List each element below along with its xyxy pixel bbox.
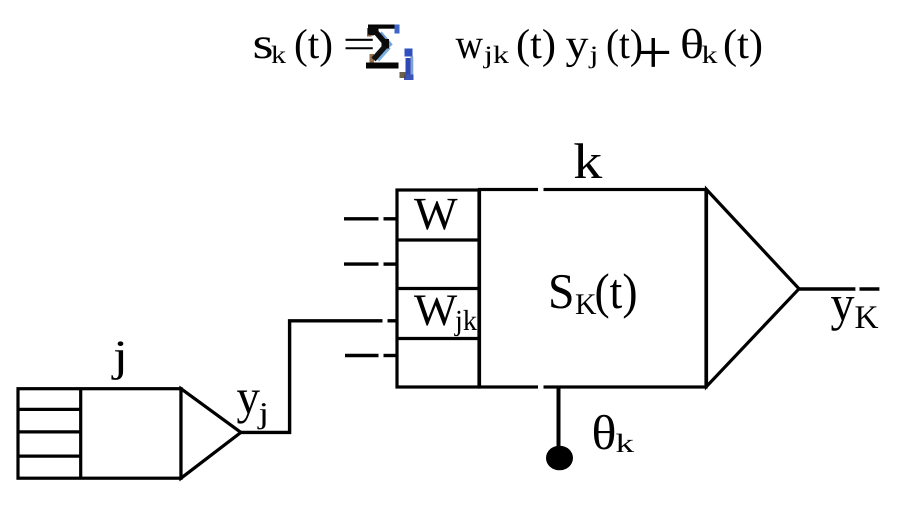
svg-text:(t): (t): [516, 22, 556, 68]
svg-text:W: W: [414, 188, 458, 239]
svg-text:θ: θ: [592, 405, 617, 460]
svg-text:w: w: [456, 22, 484, 68]
svg-text:k: k: [616, 428, 636, 458]
svg-text:j: j: [588, 42, 598, 69]
svg-text:+: +: [634, 19, 673, 87]
svg-text:W: W: [414, 285, 458, 335]
svg-text:j: j: [257, 397, 269, 430]
svg-text:k: k: [573, 133, 602, 189]
svg-text:y: y: [566, 22, 589, 68]
svg-text:(t): (t): [294, 22, 333, 68]
svg-text:S: S: [548, 263, 575, 319]
svg-text:jk: jk: [483, 42, 510, 69]
svg-text:jk: jk: [454, 305, 477, 337]
svg-text:j: j: [111, 332, 128, 381]
svg-text:θ: θ: [680, 22, 704, 68]
svg-text:k: k: [271, 42, 287, 69]
svg-text:y: y: [831, 275, 855, 331]
svg-text:k: k: [702, 42, 719, 69]
svg-text:y: y: [237, 369, 261, 424]
svg-text:(t): (t): [595, 263, 638, 319]
svg-text:(t): (t): [723, 22, 763, 68]
svg-text:K: K: [855, 300, 879, 336]
